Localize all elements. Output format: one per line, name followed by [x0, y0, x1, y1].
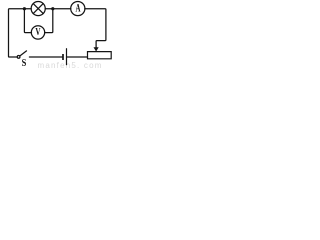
- switch S arm: [20, 51, 26, 56]
- node A junction dot: [23, 7, 26, 10]
- lamp X1 cross: [33, 4, 43, 14]
- wire switch to battery: [29, 56, 62, 58]
- wire lamp to ammeter: [45, 8, 71, 10]
- switch S contact circle: [17, 56, 20, 59]
- lamp X1 circle: [31, 2, 45, 16]
- svg-text:manfen5. com: manfen5. com: [38, 61, 103, 68]
- rheostat R box: [88, 52, 112, 59]
- rheostat wiper arrowhead: [94, 47, 99, 51]
- wire battery to rheostat box: [67, 56, 87, 58]
- voltmeter V circle: [31, 26, 44, 39]
- svg-text:S: S: [22, 58, 27, 68]
- battery short plate: [62, 54, 64, 60]
- wire ammeter to right rail and rheostat wiper: [85, 9, 106, 48]
- svg-text:A: A: [75, 2, 80, 15]
- voltmeter branch wire left: [24, 9, 31, 33]
- svg-text:V: V: [35, 27, 40, 39]
- battery long plate: [66, 49, 68, 65]
- voltmeter branch wire right: [45, 9, 53, 33]
- wire top-left corner, left rail, down to switch: [9, 9, 32, 57]
- node B junction dot: [51, 7, 54, 10]
- ammeter A circle: [71, 1, 85, 15]
